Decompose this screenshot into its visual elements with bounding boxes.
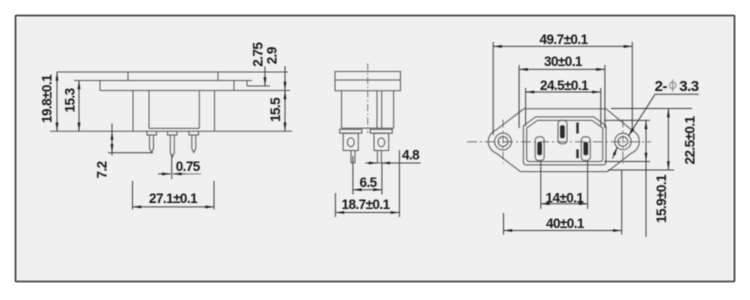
dimension 7.2 extension: [108, 152, 153, 154]
dimension 0.75 right arrow: [173, 173, 186, 175]
flange outline: [488, 109, 639, 172]
right ear boss circle: [615, 133, 631, 149]
svg-text:30±0.1: 30±0.1: [544, 54, 583, 69]
body inner cavity walls: [149, 91, 199, 129]
pin right: [192, 135, 196, 153]
recess outer outline: [523, 117, 606, 165]
pin right: [377, 151, 381, 163]
terminal box right: [374, 133, 389, 150]
pin left: [351, 151, 355, 163]
pin shoulder middle: [168, 131, 178, 135]
svg-text:15.9±0.1: 15.9±0.1: [654, 174, 669, 223]
body bottom base line (with extensions both sides): [50, 130, 292, 132]
terminal hole right: [378, 138, 385, 147]
label phi symbol stroke: [672, 79, 674, 91]
pin middle: [170, 135, 174, 157]
dimension 22.5±0.1 line: [667, 109, 669, 171]
rim top edge (with extension to 19.8 dim): [57, 71, 288, 73]
svg-text:7.2: 7.2: [95, 161, 110, 178]
svg-text:0.75: 0.75: [176, 159, 201, 174]
dimension 15.9±0.1 tail: [645, 162, 647, 238]
flange plate mid line: [335, 79, 401, 81]
mold mark lower: [576, 149, 578, 158]
slot center blade: [560, 125, 565, 138]
svg-text:14±0.1: 14±0.1: [546, 191, 585, 206]
rim step verticals: [128, 72, 218, 81]
terminal box left: [343, 133, 358, 150]
dimension 22.5±0.1 extensions: [608, 109, 692, 171]
pin shoulder left: [147, 131, 157, 135]
label phi symbol circle: [670, 82, 676, 88]
dimension 14±0.1 extensions: [541, 162, 588, 209]
body walls: [342, 91, 394, 129]
recess inner outline: [527, 120, 603, 161]
dimension 49.7±0.1 line: [493, 45, 632, 47]
slot center outline: [558, 120, 567, 144]
dimension 15.9±0.1 extensions: [604, 120, 650, 161]
svg-text:27.1±0.1: 27.1±0.1: [149, 191, 198, 206]
dimension 4.8 arrows: [366, 162, 378, 164]
left ear hole: [498, 137, 508, 147]
pin left: [150, 135, 154, 153]
slot right blade: [584, 142, 589, 155]
slot left outline: [535, 137, 544, 161]
dimension 49.7±0.1 extensions: [493, 42, 632, 135]
dimension 2.9 line: [284, 66, 286, 91]
svg-text:6.5: 6.5: [360, 175, 378, 190]
dimension 19.8±0.1 line: [56, 72, 58, 131]
body outer walls: [133, 91, 215, 132]
dimension 14±0.1 line: [541, 203, 588, 205]
dimension 4.8 underline: [394, 162, 421, 164]
horizontal centerline: [467, 141, 651, 143]
svg-text:15.3: 15.3: [63, 87, 78, 112]
svg-text:49.7±0.1: 49.7±0.1: [540, 32, 589, 47]
mold mark upper: [576, 123, 578, 134]
dimension 27.1±0.1 line: [133, 206, 215, 208]
dimension 27.1±0.1 extensions: [133, 181, 215, 210]
slot right outline: [581, 137, 590, 161]
flange bottom line (with extension to 15.5 dim): [100, 90, 290, 92]
dimension 15.5 line: [284, 91, 286, 132]
dimension 40±0.1 line: [504, 230, 622, 232]
svg-text:22.5±0.1: 22.5±0.1: [683, 115, 698, 164]
dimension 15.3 line: [78, 81, 80, 132]
slot left blade: [537, 142, 542, 155]
step edge: [247, 81, 270, 87]
left ear boss circle: [495, 133, 512, 150]
svg-text:2-: 2-: [655, 78, 668, 95]
svg-text:3.3: 3.3: [679, 78, 699, 95]
svg-text:18.7±0.1: 18.7±0.1: [342, 197, 391, 212]
dimension 6.5 extensions: [353, 156, 382, 195]
dimension 0.75 underline: [185, 173, 201, 175]
svg-text:15.5: 15.5: [268, 97, 283, 122]
dimension 24.5±0.1 line: [526, 91, 601, 93]
pin shoulder right: [189, 131, 199, 135]
terminal bar right: [370, 129, 392, 133]
dimension 30±0.1 line: [519, 68, 605, 70]
dimension 6.5 line: [353, 189, 382, 191]
svg-text:19.8±0.1: 19.8±0.1: [39, 74, 54, 123]
flange plate outline: [335, 72, 401, 91]
label 2-Φ3.3 shelf: [655, 93, 699, 95]
body bottom: [342, 127, 394, 129]
body internal walls: [377, 91, 382, 129]
flange left edge: [99, 81, 101, 91]
right ear vertical centerline: [622, 120, 624, 164]
svg-text:40±0.1: 40±0.1: [546, 216, 585, 231]
left ear vertical centerline: [502, 120, 504, 164]
dimension 2.75 line: [264, 67, 266, 87]
dimension 18.7±0.1 extensions: [335, 150, 399, 217]
dimension 24.5±0.1 extensions: [526, 88, 601, 126]
dimension 40±0.1 extensions: [504, 170, 622, 235]
terminal bar left: [340, 129, 362, 133]
dimension 7.2 line: [111, 131, 113, 153]
svg-text:4.8: 4.8: [402, 148, 420, 163]
svg-text:2.9: 2.9: [265, 47, 280, 64]
dimension 0.75 left arrow: [158, 173, 171, 175]
flange right edge: [233, 81, 235, 91]
dimension 15.9±0.1 line: [645, 120, 647, 161]
terminal hole left: [347, 138, 354, 147]
dimension 18.7±0.1 line: [335, 212, 399, 214]
dimension 7.2 tail: [111, 153, 113, 156]
svg-text:24.5±0.1: 24.5±0.1: [540, 78, 589, 93]
right ear hole: [618, 137, 628, 147]
dimension 30±0.1 extensions: [519, 65, 605, 128]
centerline: [367, 64, 369, 134]
svg-text:2.75: 2.75: [251, 42, 266, 67]
dimension 0.75 extension below pin: [171, 154, 173, 179]
flange top line (with extensions): [74, 80, 252, 82]
dimension 7.2 overshoot: [111, 124, 113, 132]
label 2-Φ3.3 leader: [628, 94, 655, 136]
